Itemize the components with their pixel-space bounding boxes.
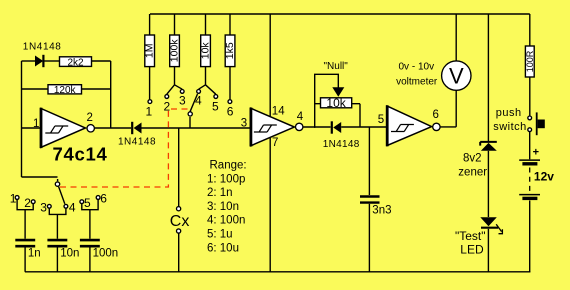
svg-text:3: 3 <box>179 93 186 107</box>
svg-text:+: + <box>533 146 539 158</box>
resistor 10k (range) <box>199 14 216 94</box>
battery B1 12v <box>519 146 554 271</box>
svg-text:1k5: 1k5 <box>224 42 236 59</box>
text: range table <box>207 160 247 255</box>
resistor 120k <box>22 85 111 96</box>
wire: pin6 output to voltmeter node <box>440 90 456 127</box>
svg-text:6: 6 <box>100 191 107 205</box>
svg-text:5: 5 <box>378 114 384 126</box>
svg-text:100k: 100k <box>169 39 181 63</box>
node Cx terminals (unknown capacitor) <box>170 128 190 272</box>
pole B contact number labels 1-6 <box>146 93 234 118</box>
svg-text:14: 14 <box>272 106 285 118</box>
wire: pin4 output to diode D3 <box>303 126 331 128</box>
label push switch <box>493 107 527 133</box>
svg-text:2: 1n: 2: 1n <box>207 187 233 199</box>
rotary switch pole A contact 5 <box>80 200 84 204</box>
svg-text:1: 1 <box>10 191 17 205</box>
svg-text:3: 3 <box>241 117 247 129</box>
svg-text:4: 100n: 4: 100n <box>207 215 245 227</box>
svg-text:1: 1 <box>146 105 153 119</box>
svg-text:2: 2 <box>164 100 171 114</box>
wire: pin1 input stub <box>22 127 42 129</box>
rotary switch pole A contact 4 <box>64 204 68 208</box>
svg-text:10n: 10n <box>60 248 79 260</box>
wire: push switch to battery <box>529 132 531 159</box>
inverter U1b 74c14 schmitt trigger (pins 3,4) <box>251 108 303 147</box>
capacitor C 1n <box>15 240 40 272</box>
rotary switch pole B wiper <box>188 94 197 128</box>
rotary switch pole B contact 4 <box>197 90 201 94</box>
svg-text:1: 100p: 1: 100p <box>207 173 245 185</box>
diode D2 1N4148 (discharge) <box>132 122 141 134</box>
wire: diode feedback branch top <box>22 60 36 62</box>
wire: D3 to pin5 <box>341 126 387 128</box>
rotary switch pole B contact 2 <box>165 95 169 99</box>
meter M1 voltmeter <box>442 14 471 90</box>
wire: pin2 output to diode D2 <box>95 127 131 129</box>
svg-text:6: 10u: 6: 10u <box>207 242 239 254</box>
svg-text:1N4148: 1N4148 <box>118 137 156 148</box>
svg-text:1N4148: 1N4148 <box>323 139 360 150</box>
wire: main timing node (D2 to pin3) <box>142 127 251 129</box>
svg-text:voltmeter: voltmeter <box>396 77 438 88</box>
svg-text:3: 3 <box>40 201 47 215</box>
wire: pole A contacts 5+6 bridge to 100n <box>82 200 98 239</box>
svg-text:2: 2 <box>87 112 93 124</box>
resistor 1M (range) <box>144 14 156 99</box>
label 8v2 zener <box>458 152 487 178</box>
resistor 100R <box>525 14 535 116</box>
capacitor 3n3 <box>360 127 391 272</box>
svg-text:6: 6 <box>227 105 234 119</box>
wire: bottom ground rail <box>25 271 531 273</box>
svg-text:7: 7 <box>272 137 278 149</box>
rotary switch pole B contact 3 <box>180 90 184 94</box>
resistor 100k (range) <box>167 14 182 94</box>
rotary switch pole A contact 2 <box>31 200 35 204</box>
svg-text:5: 5 <box>84 196 91 210</box>
svg-text:1: 1 <box>33 118 39 130</box>
wire: zener column from rail <box>487 14 489 141</box>
wire: pin1 node down to pole A wiper <box>22 177 58 181</box>
switch S2 push switch <box>528 112 545 135</box>
rotary switch pole B contact 6 <box>228 100 232 104</box>
svg-text:2: 2 <box>24 196 31 210</box>
svg-text:switch: switch <box>493 121 527 133</box>
resistor 2k2 <box>60 57 111 69</box>
svg-text:push: push <box>496 107 522 119</box>
svg-text:1M: 1M <box>144 44 156 59</box>
svg-text:Range:: Range: <box>210 160 247 172</box>
wire: feedback right vertical to pin2 node <box>110 61 112 128</box>
svg-text:4: 4 <box>195 93 202 107</box>
rotary switch pole A contact 6 <box>96 196 100 200</box>
svg-text:3n3: 3n3 <box>372 205 391 217</box>
label 0v - 10v voltmeter <box>396 62 438 88</box>
wire: pin14 supply drop <box>269 14 271 116</box>
diode Z1 zener 8v2 <box>480 142 497 217</box>
svg-text:100R: 100R <box>525 50 535 72</box>
svg-text:4: 4 <box>297 111 304 123</box>
label "Test" LED <box>455 229 486 257</box>
svg-text:12v: 12v <box>534 169 554 183</box>
svg-text:0v - 10v: 0v - 10v <box>399 62 435 73</box>
diode D3 1N4148 <box>332 121 341 133</box>
svg-text:V: V <box>449 64 464 89</box>
svg-text:8v2: 8v2 <box>463 152 482 164</box>
svg-text:2k2: 2k2 <box>67 57 84 68</box>
inverter U1c 74c14 schmitt trigger (pins 5,6) <box>387 105 440 146</box>
capacitor C 100n <box>80 240 118 272</box>
svg-text:10k: 10k <box>200 42 212 60</box>
wire: top supply rail <box>150 13 530 15</box>
svg-text:LED: LED <box>460 243 484 257</box>
svg-text:1N4148: 1N4148 <box>23 41 62 52</box>
capacitor C 10n <box>47 240 79 272</box>
wire: ganged switch dashed link (red) <box>60 109 188 187</box>
resistor 1k5 (range) <box>224 14 236 99</box>
diode D1 1N4148 (feedback) <box>35 55 60 67</box>
rotary switch pole A contact 1 <box>15 196 19 200</box>
wire: pole A contacts 1+2 bridge to 1n <box>17 200 33 239</box>
wire: pole A contacts 3+4 bridge to 10n <box>49 209 66 239</box>
wire: feedback node left vertical (pin1 node) <box>21 61 23 177</box>
svg-text:120k: 120k <box>54 85 77 96</box>
svg-text:3: 10n: 3: 10n <box>207 201 239 213</box>
pole A contact number labels 1-6 <box>10 191 108 214</box>
wire: pin7 ground drop <box>269 138 271 272</box>
LED "Test" <box>480 217 502 272</box>
rotary switch pole A wiper <box>55 182 65 204</box>
svg-text:1n: 1n <box>28 248 41 260</box>
svg-text:10k: 10k <box>326 96 346 110</box>
svg-text:zener: zener <box>458 166 487 178</box>
rotary switch pole B contact 5 <box>214 95 218 99</box>
potentiometer "Null" 10k with wiper loop <box>315 74 360 128</box>
svg-text:5: 5 <box>212 100 219 114</box>
svg-text:74c14: 74c14 <box>53 143 108 164</box>
svg-text:"Test": "Test" <box>455 229 486 243</box>
svg-text:"Null": "Null" <box>324 61 349 72</box>
svg-text:4: 4 <box>69 201 76 215</box>
svg-text:6: 6 <box>433 109 439 121</box>
inverter U1a 74c14 schmitt trigger (pins 1,2) <box>41 108 94 148</box>
svg-text:100n: 100n <box>93 248 119 260</box>
svg-text:5: 1u: 5: 1u <box>207 229 233 241</box>
rotary switch pole B contact 1 <box>148 100 152 104</box>
svg-text:Cx: Cx <box>170 213 190 230</box>
rotary switch pole A contact 3 <box>47 204 51 208</box>
